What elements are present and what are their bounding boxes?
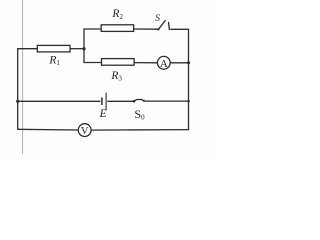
svg-text:V: V [81,126,89,137]
svg-text:A: A [160,58,168,70]
svg-text:E: E [99,108,107,120]
svg-text:S: S [155,14,160,24]
